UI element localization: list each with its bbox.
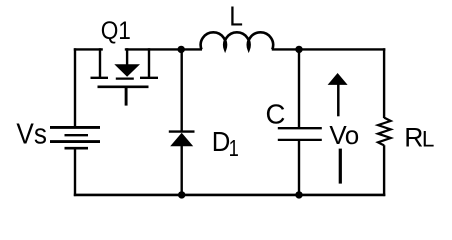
transistor Q1 (MOSFET with body diode) bbox=[91, 48, 159, 105]
inductor L bbox=[201, 32, 273, 49]
wire: node A down to D1 cathode bbox=[180, 49, 182, 131]
wire: D1 anode down to bottom rail bbox=[180, 146, 182, 197]
svg-text:Vs: Vs bbox=[16, 118, 47, 150]
Vo minus-side line bbox=[339, 149, 342, 184]
svg-text:Vo: Vo bbox=[329, 120, 358, 150]
Vo reference arrow (output voltage polarity) bbox=[328, 73, 348, 116]
wire: RL down to bottom-right corner bbox=[383, 145, 385, 196]
junction: D1 anode at bottom rail bbox=[178, 191, 185, 198]
svg-text:L: L bbox=[229, 0, 243, 31]
wire: bottom rail bbox=[74, 194, 386, 197]
junction: C bottom at bottom rail bbox=[295, 191, 302, 198]
resistor RL (zigzag) bbox=[378, 118, 391, 146]
wire: Q1 drain to inductor (through node A) bbox=[125, 48, 202, 50]
wire: inductor to top-right corner (through node B) bbox=[272, 48, 386, 50]
diode D1 bbox=[169, 132, 195, 147]
capacitor C bbox=[278, 128, 322, 140]
junction: node A (switch node) bbox=[178, 46, 185, 53]
wire: top-left horizontal from corner to Q1 source leg bbox=[74, 48, 103, 50]
svg-text:Q1: Q1 bbox=[101, 17, 131, 45]
svg-text:R: R bbox=[404, 123, 423, 153]
battery Vs (voltage source) bbox=[50, 127, 100, 148]
wire: top-right corner down to resistor RL bbox=[383, 48, 385, 118]
wire: Vs negative lead down to bottom rail bbox=[74, 148, 76, 196]
wire: node B down to capacitor C bbox=[298, 49, 300, 128]
svg-text:C: C bbox=[266, 98, 286, 129]
svg-text:1: 1 bbox=[229, 135, 239, 161]
wire: left rail, Vs positive lead up to top-left corner bbox=[74, 48, 76, 127]
svg-text:L: L bbox=[422, 127, 435, 152]
wire: C bottom plate down to bottom rail bbox=[298, 140, 300, 196]
junction: node B (output node) bbox=[295, 46, 302, 53]
